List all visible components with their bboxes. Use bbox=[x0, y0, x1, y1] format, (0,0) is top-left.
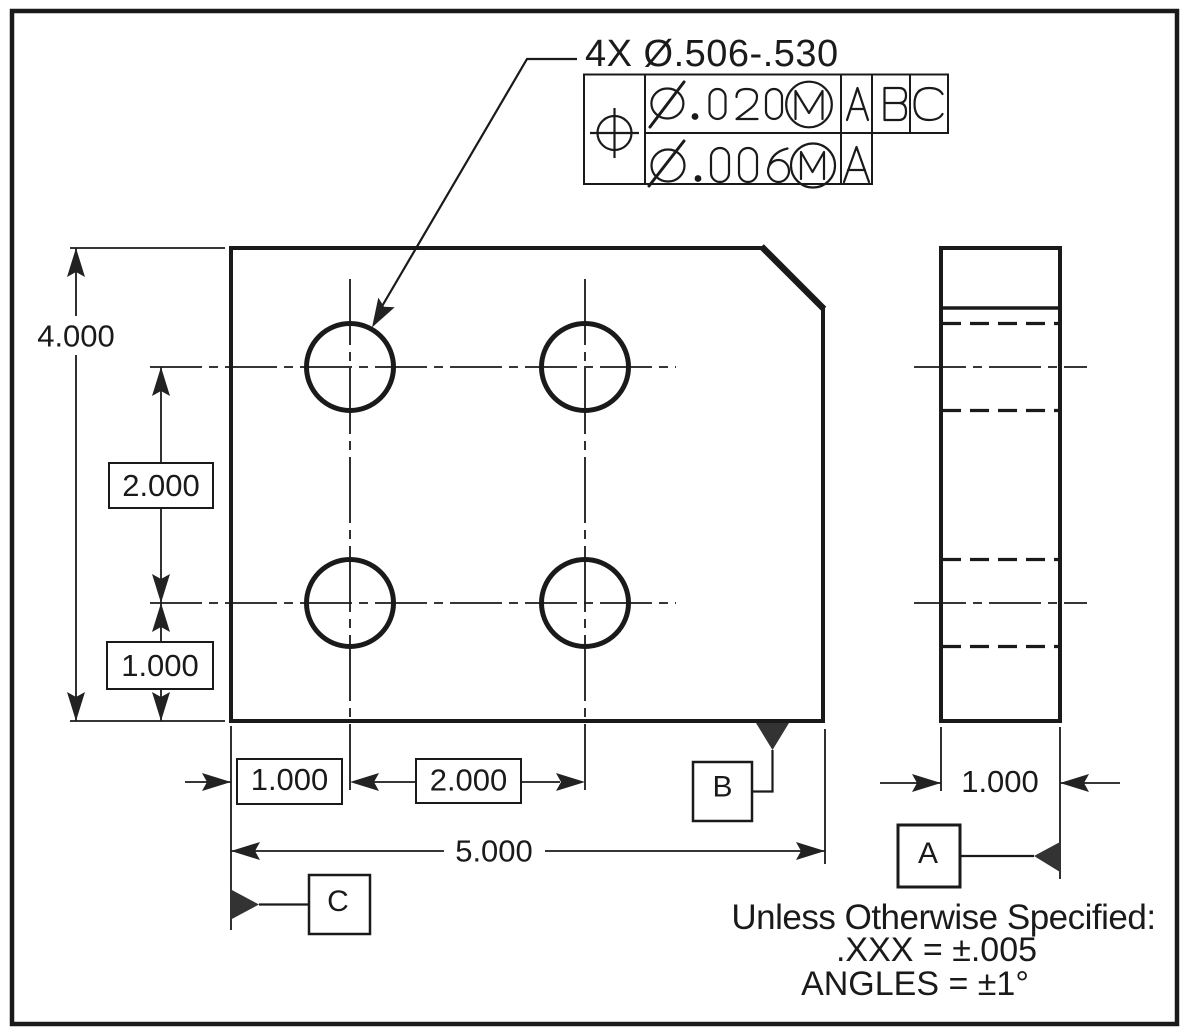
dia symbol bbox=[651, 89, 683, 119]
dim 4.000 line bbox=[75, 248, 77, 316]
dim 1.000 left line bbox=[160, 603, 162, 642]
side view outline bbox=[941, 248, 1060, 721]
svg-text:1.000: 1.000 bbox=[251, 762, 329, 797]
dim 2.000 box bbox=[109, 463, 213, 508]
svg-text:4X Ø.506-.530: 4X Ø.506-.530 bbox=[585, 33, 839, 75]
plate outline (front view) bbox=[231, 248, 823, 721]
datum B triangle bbox=[756, 723, 789, 750]
svg-text:1.000: 1.000 bbox=[961, 764, 1039, 799]
centerline row 1 bbox=[150, 366, 676, 368]
dim 2.000 line bbox=[160, 367, 162, 463]
dim 1.000 left arrow up bbox=[152, 603, 170, 632]
0 bbox=[739, 148, 757, 182]
dim 2.000 bottom right arrow bbox=[521, 781, 560, 783]
position symbol bbox=[590, 108, 639, 158]
dim 2.000 arrow down bbox=[152, 574, 170, 603]
hole bottom-right bbox=[542, 560, 629, 647]
extension line bottom-left bbox=[70, 720, 225, 722]
datum C triangle bbox=[230, 889, 259, 920]
hole top-left bbox=[307, 324, 394, 411]
dim 2.000 bottom box bbox=[416, 759, 521, 803]
0 bbox=[711, 148, 729, 182]
dim 1.000 left arrow down bbox=[152, 692, 170, 721]
dim 2.000 bottom left arrow bbox=[350, 773, 379, 791]
dim 1.000 side right tail bbox=[1060, 782, 1120, 784]
dim 1.000 side right arrow bbox=[1060, 774, 1089, 792]
side view extension line left bbox=[940, 727, 942, 791]
dim 5.000 arrow right bbox=[796, 842, 825, 860]
hidden line hole2 bottom bbox=[942, 645, 1059, 648]
0 bbox=[766, 89, 782, 119]
FCF row2 text: dia .006 (M) A bbox=[649, 141, 869, 188]
datum B leader bbox=[752, 750, 773, 792]
dim 1.000 left box bbox=[107, 642, 213, 689]
dim 4.000 arrow down bbox=[67, 692, 85, 721]
hole bottom-left bbox=[307, 560, 394, 647]
dim 1.000 side left arrow bbox=[912, 774, 941, 792]
centerline col 1 bbox=[349, 279, 351, 793]
svg-text:.XXX = ±.005: .XXX = ±.005 bbox=[836, 931, 1037, 969]
dim 2.000 arrow up bbox=[152, 367, 170, 396]
chamfer edge bbox=[762, 247, 825, 310]
circled M bbox=[791, 144, 835, 188]
extension line left of bottom dims bbox=[230, 726, 232, 930]
side centerline row1 bbox=[914, 366, 1087, 368]
svg-text:1.000: 1.000 bbox=[121, 648, 199, 683]
centerline col 2 bbox=[584, 279, 586, 793]
FCF row1 text: dia .020 (M) bbox=[650, 82, 832, 128]
period bbox=[695, 175, 702, 182]
6 bbox=[769, 149, 788, 167]
side view chamfer line bbox=[941, 306, 1060, 310]
period bbox=[692, 113, 699, 120]
svg-text:ANGLES = ±1°: ANGLES = ±1° bbox=[801, 965, 1029, 1003]
datum C box bbox=[309, 875, 370, 934]
svg-text:B: B bbox=[712, 771, 732, 804]
dim 1.000 bottom arrow bbox=[202, 773, 231, 791]
dim 1.000 bottom box bbox=[237, 759, 342, 804]
side centerline row2 bbox=[914, 602, 1087, 604]
0 bbox=[710, 89, 726, 119]
svg-text:4.000: 4.000 bbox=[37, 319, 115, 354]
side view extension line right bbox=[1059, 727, 1061, 879]
hole top-right bbox=[542, 324, 629, 411]
svg-text:A: A bbox=[918, 837, 938, 870]
hidden line hole1 top bbox=[942, 322, 1059, 325]
hidden line hole2 top bbox=[942, 558, 1059, 561]
extension line right of bottom dims bbox=[824, 729, 826, 864]
datum B box bbox=[693, 762, 752, 821]
dim 5.000 line bbox=[231, 850, 444, 852]
dim 1.000 side left tail bbox=[880, 782, 941, 784]
datum A triangle bbox=[1034, 842, 1060, 872]
datum A leader bbox=[960, 855, 1034, 857]
svg-text:2.000: 2.000 bbox=[122, 468, 200, 503]
datum A box bbox=[898, 825, 960, 887]
2 bbox=[737, 89, 758, 119]
svg-text:2.000: 2.000 bbox=[430, 763, 508, 798]
svg-text:5.000: 5.000 bbox=[455, 834, 533, 869]
dim 1.000 bottom tail bbox=[185, 781, 231, 783]
circled M bbox=[786, 82, 832, 128]
leader line bbox=[381, 59, 577, 308]
centerline row 2 bbox=[150, 602, 676, 604]
dim 5.000 arrow left bbox=[231, 842, 260, 860]
dim 4.000 arrow up bbox=[67, 248, 85, 277]
datum C leader bbox=[259, 903, 309, 905]
hidden line hole1 bottom bbox=[942, 409, 1059, 412]
FCF borders bbox=[584, 75, 948, 185]
svg-text:C: C bbox=[327, 885, 349, 918]
extension line top-left bbox=[70, 247, 225, 249]
FCF row1 datum letters A B C bbox=[847, 88, 943, 120]
leader arrowhead bbox=[372, 298, 395, 328]
dia symbol bbox=[652, 150, 685, 182]
A bbox=[844, 147, 869, 182]
